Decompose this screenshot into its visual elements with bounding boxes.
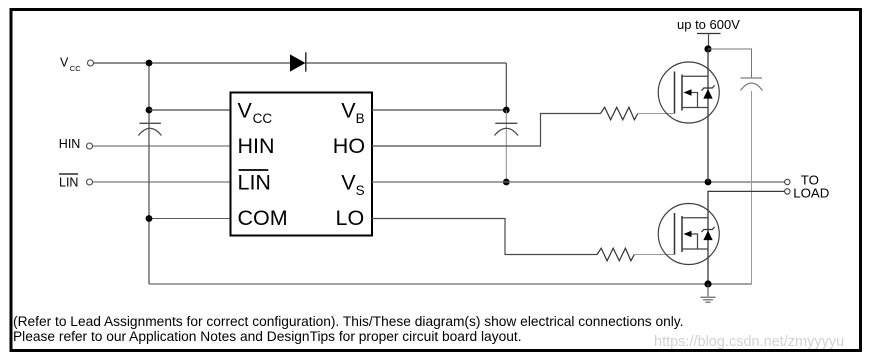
svg-text:HO: HO [333, 134, 365, 158]
svg-text:CC: CC [70, 64, 81, 73]
wire Q1 drain-source column [707, 49, 709, 182]
wire HV rail down [708, 34, 710, 50]
terminal VCC [88, 60, 94, 66]
wire VB to bootstrap cap [372, 109, 506, 111]
node HV rail bar [697, 33, 721, 35]
svg-text:V: V [341, 98, 356, 122]
svg-text:HIN: HIN [59, 137, 81, 151]
svg-text:S: S [356, 183, 365, 198]
wire R2 to Q2 gate [634, 254, 674, 256]
resistor R2 low side gate [597, 248, 634, 261]
node ground junction [704, 280, 711, 287]
svg-text:HIN: HIN [238, 134, 275, 158]
node VCC pin junction [146, 107, 153, 114]
wire R1 to Q1 gate [638, 113, 675, 115]
wire bus cap to ground line [751, 91, 753, 284]
wire COM [149, 218, 231, 220]
svg-text:LOAD: LOAD [793, 185, 829, 200]
label TO LOAD [793, 173, 829, 201]
svg-text:LIN: LIN [238, 170, 271, 194]
svg-text:(Refer to Lead Assignments for: (Refer to Lead Assignments for correct c… [13, 314, 684, 329]
pin label LIN with overline [238, 170, 271, 194]
terminal LIN [87, 179, 93, 185]
ground symbol [701, 284, 716, 302]
wire HIN input [93, 145, 231, 147]
svg-text:V: V [238, 98, 253, 122]
resistor R1 high side gate [601, 107, 638, 120]
wire bottom ground line [149, 283, 752, 285]
svg-text:Please refer to our Applicatio: Please refer to our Application Notes an… [13, 329, 522, 344]
terminal TO [785, 179, 790, 184]
capacitor C1 VCC decoupling [138, 123, 161, 135]
svg-text:B: B [356, 111, 365, 126]
svg-text:https://blog.csdn.net/zmyyyyu: https://blog.csdn.net/zmyyyyu [654, 334, 844, 350]
pin label VCC [238, 98, 273, 125]
terminal HIN [87, 143, 93, 149]
svg-text:LO: LO [336, 206, 365, 230]
wire left vertical bus x=149 [148, 63, 150, 284]
pin label VB [341, 98, 364, 125]
node VS main junction [705, 179, 712, 186]
node VB junction [503, 107, 510, 114]
wire HO to gate resistor [372, 114, 601, 147]
diode D1 bootstrap [290, 52, 306, 71]
label VCC input [60, 56, 81, 73]
wire bootstrap corner VCC-to-VB [505, 63, 507, 110]
wire LOAD to Q2 drain [708, 191, 785, 284]
transistor Q1 high side MOSFET [658, 62, 719, 123]
svg-text:V: V [341, 170, 356, 194]
svg-text:COM: COM [238, 206, 288, 230]
op-amp U1 gate driver IC box [231, 93, 373, 236]
node VCC junction [146, 60, 153, 67]
transistor Q2 low side MOSFET [658, 204, 719, 265]
wire VCC top rail [93, 62, 507, 64]
svg-text:up to 600V: up to 600V [677, 17, 740, 32]
wire LIN input [93, 181, 231, 183]
terminal LOAD [785, 189, 790, 194]
wire LO to gate resistor [372, 219, 597, 255]
wire VCC pin branch [149, 109, 231, 111]
wire bootstrap cap vertical [505, 110, 507, 182]
capacitor C3 bus [741, 78, 763, 91]
capacitor C2 bootstrap [495, 123, 519, 135]
node HV junction [704, 45, 711, 52]
svg-text:LIN: LIN [59, 175, 78, 189]
node COM junction [146, 215, 153, 222]
pin label VS [341, 170, 364, 197]
label LIN input with overline [59, 174, 78, 189]
wire HV to bus cap [708, 49, 752, 78]
node VS bootstrap junction [503, 179, 510, 186]
wire VS line to load [372, 181, 785, 183]
svg-text:CC: CC [253, 111, 273, 126]
svg-text:V: V [60, 56, 69, 70]
